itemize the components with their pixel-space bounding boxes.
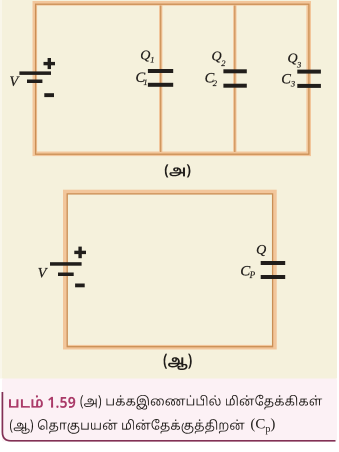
- svg-text:2: 2: [221, 58, 226, 68]
- wire: bottom circuit loop (light): [65, 192, 274, 347]
- svg-text:C: C: [281, 71, 291, 87]
- battery V (top circuit) positive plate: [19, 71, 51, 75]
- capacitor C2 bottom plate: [223, 84, 246, 88]
- svg-text:1: 1: [150, 55, 154, 65]
- capacitor Cp bottom plate: [261, 275, 286, 279]
- wire: C1 branch: [159, 6, 162, 153]
- label (ஆ): [164, 354, 192, 370]
- wire: top circuit outer loop (dark core): [36, 4, 309, 154]
- capacitor C3 top plate: [297, 70, 321, 74]
- plus sign (top battery): [44, 62, 56, 65]
- svg-text:Q: Q: [140, 49, 150, 64]
- svg-text:(Cp): (Cp): [250, 416, 275, 435]
- capacitor C2 top plate: [223, 69, 246, 73]
- capacitor C1 top plate: [148, 69, 173, 73]
- battery V (bottom circuit) negative plate: [58, 273, 74, 277]
- wire: C2 branch: [233, 6, 236, 153]
- caption line2 tamil: [10, 419, 245, 434]
- minus sign (bottom battery): [75, 284, 85, 288]
- battery V (top circuit) negative plate: [27, 80, 42, 84]
- svg-text:Q: Q: [212, 50, 222, 65]
- svg-text:2: 2: [213, 78, 218, 88]
- minus sign (top battery): [44, 93, 54, 97]
- caption "படம் 1.59": [9, 395, 75, 408]
- battery V (bottom circuit) positive plate: [50, 262, 82, 266]
- wire: bottom circuit loop (dark core): [67, 194, 272, 347]
- capacitor C3 bottom plate: [297, 84, 321, 88]
- capacitor Cp top plate: [261, 261, 286, 265]
- svg-text:3: 3: [296, 59, 301, 69]
- wire: top circuit outer loop (light): [35, 3, 309, 154]
- svg-text:Q: Q: [256, 243, 266, 258]
- caption panel background: [2, 379, 337, 442]
- caption line1 tamil: [81, 395, 323, 410]
- capacitor C1 bottom plate: [148, 83, 173, 87]
- svg-text:P: P: [249, 270, 256, 280]
- label (அ): [165, 164, 191, 177]
- plus sign (bottom battery): [74, 251, 86, 254]
- svg-text:3: 3: [290, 79, 295, 89]
- svg-text:1: 1: [143, 77, 147, 87]
- caption panel border (left+bottom maroon): [2, 392, 335, 441]
